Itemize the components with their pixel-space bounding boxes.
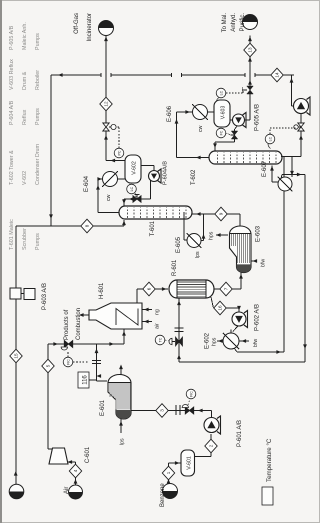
control valve lean solvent <box>298 123 304 131</box>
pump P-605 A/B <box>243 113 247 128</box>
svg-text:Off-Gas: Off-Gas <box>74 13 80 34</box>
svg-text:E-607: E-607 <box>262 160 268 177</box>
wire H-601 outlet to reactor <box>136 289 138 303</box>
wire E-602 salt return down to y=284 <box>235 349 238 353</box>
svg-text:H-601: H-601 <box>99 282 105 299</box>
wire stack to products of combustion <box>80 314 89 316</box>
wire E-603 outlet to T-601 bottom <box>239 214 241 226</box>
wire T-602 bottoms <box>281 156 301 158</box>
wire pump discharge to recycle riser <box>292 105 294 107</box>
svg-text:Maleic Anh.: Maleic Anh. <box>22 22 28 50</box>
svg-text:2: 2 <box>209 444 214 447</box>
svg-text:LC: LC <box>268 136 272 141</box>
wire salt to P-602 <box>238 308 240 312</box>
svg-text:E-605: E-605 <box>176 236 182 253</box>
svg-text:V-601: V-601 <box>187 456 193 470</box>
wire air to burner <box>142 321 152 323</box>
svg-text:E-604: E-604 <box>84 175 90 192</box>
stream connector solvent make-up <box>9 484 24 499</box>
orifice plate on return <box>175 331 184 333</box>
svg-text:Drum &: Drum & <box>22 71 28 90</box>
svg-text:T-602: T-602 <box>191 169 197 185</box>
svg-text:116: 116 <box>83 375 89 385</box>
pump P-603 A/B boxes <box>10 288 21 299</box>
stream connector To Maleic Anhydride Purification <box>243 15 258 30</box>
control valve T-601 reflux <box>133 196 141 202</box>
node stream diamond 5 <box>42 359 54 373</box>
svg-text:15: 15 <box>14 353 19 359</box>
wire bottoms to lean solvent pump <box>300 114 302 157</box>
svg-text:E-602: E-602 <box>205 332 211 349</box>
temperature flag 116 <box>78 372 89 388</box>
svg-text:FC: FC <box>219 130 223 135</box>
vessel E-601 benzene vaporizer <box>108 375 131 420</box>
kettle exchanger E-603 effluent cooler <box>229 226 251 273</box>
svg-text:TC: TC <box>158 337 162 342</box>
node stream diamond 3 <box>156 404 168 418</box>
svg-text:PC: PC <box>117 150 121 155</box>
legend temperature box <box>262 487 273 505</box>
svg-text:7: 7 <box>224 287 229 290</box>
svg-text:Combustion: Combustion <box>76 308 82 340</box>
orifice plate benzene vapor <box>92 363 101 365</box>
instrument FIC air/benzene ratio <box>63 357 73 367</box>
svg-text:V-603: V-603 <box>221 106 227 120</box>
instrument FIC benzene <box>186 389 196 399</box>
pump P-604 A/B <box>158 169 162 183</box>
wire V-602 gas to off-gas line <box>106 160 125 162</box>
wire V-601 bottoms <box>195 456 212 458</box>
node stream diamond 8 <box>81 219 93 233</box>
svg-text:3: 3 <box>160 409 165 412</box>
wire benzene to V-601 <box>168 463 170 484</box>
svg-text:cw: cw <box>106 194 112 201</box>
control valve product <box>247 86 253 94</box>
control valve benzene feed <box>185 407 193 414</box>
instrument LC on V-603 <box>216 88 226 98</box>
node stream diamond 4 <box>69 464 81 478</box>
wire solvent make-up header y=15.5 <box>15 226 17 484</box>
wire solvent into T-601 top <box>123 220 125 226</box>
vessel V-602 condenser drum <box>125 155 141 183</box>
compressor C-601 <box>49 448 68 464</box>
svg-text:C-601: C-601 <box>85 446 91 463</box>
wire off-gas header y=106 <box>105 36 107 161</box>
wire T-601 overhead <box>98 212 119 214</box>
wire bfw to E-602 <box>240 340 250 342</box>
svg-text:V-603 Reflux: V-603 Reflux <box>9 59 15 90</box>
wire P-605 product line y=250 <box>245 119 251 121</box>
instrument LC on T-602 <box>265 134 275 144</box>
wire bfw to E-603 <box>252 260 258 262</box>
wire P-604 reflux to T-601 <box>150 180 152 199</box>
node stream diamond 6 <box>143 282 155 296</box>
vessel V-603 reflux drum <box>214 100 230 127</box>
node stream diamond 14 <box>271 68 283 82</box>
wire E-604 to V-602 <box>118 178 126 180</box>
control valve T-602 reflux <box>231 131 237 139</box>
wire riser x=161 to control valve <box>179 361 305 363</box>
instrument PC off-gas <box>114 148 124 158</box>
svg-text:bfw: bfw <box>253 339 259 347</box>
svg-text:T-601: T-601 <box>150 220 156 236</box>
node stream diamond 15 <box>10 349 22 363</box>
instrument FC reflux <box>216 128 226 138</box>
wire T-601 side draw to E-605 <box>183 212 185 240</box>
svg-text:P-602 A/B: P-602 A/B <box>255 304 261 331</box>
instrument signal LC to product valve <box>226 92 243 94</box>
svg-text:To Mal.: To Mal. <box>222 13 228 33</box>
svg-text:FIC: FIC <box>189 391 193 397</box>
wire air to compressor <box>75 462 77 485</box>
reactor R-601 <box>169 280 214 298</box>
svg-text:Reboiler: Reboiler <box>35 70 41 90</box>
svg-text:P-601 A/B: P-601 A/B <box>237 420 243 447</box>
svg-text:E-601: E-601 <box>100 399 106 416</box>
svg-text:P-604A/B: P-604A/B <box>163 161 169 185</box>
node stream diamond 1 <box>162 466 174 480</box>
wire P-605 reflux to T-602 via valve <box>235 126 238 130</box>
wire E-606 to V-603 <box>208 111 215 113</box>
svg-text:LC: LC <box>219 90 223 95</box>
svg-text:lps: lps <box>120 438 126 445</box>
wire mixed feed into H-601 <box>109 342 114 346</box>
svg-text:Products of: Products of <box>64 309 70 340</box>
node stream diamond 9 <box>215 207 227 221</box>
svg-text:Reflux: Reflux <box>22 109 28 125</box>
instrument TC on return <box>155 335 165 345</box>
svg-text:lps: lps <box>195 251 201 258</box>
svg-text:P-605 A/B: P-605 A/B <box>255 104 261 131</box>
svg-text:E-603: E-603 <box>256 225 262 242</box>
svg-text:16: 16 <box>218 305 223 311</box>
stream connector Air <box>69 485 83 499</box>
svg-text:Scrubber: Scrubber <box>22 228 28 250</box>
wire tee to E-607 <box>291 157 293 178</box>
node stream diamond 13 <box>244 43 256 57</box>
wire ng fuel <box>142 309 152 311</box>
svg-text:V-602: V-602 <box>22 171 28 185</box>
wire effluent to E-603 <box>233 288 241 290</box>
svg-text:Temperature °C: Temperature °C <box>266 438 273 482</box>
instrument LC on V-602 <box>127 184 137 194</box>
wire hps from E-602 <box>217 340 223 342</box>
instrument signal LC to valve <box>269 128 271 134</box>
wire V-602 liquid to P-604 <box>141 165 154 167</box>
stream connector Benzene <box>163 484 178 499</box>
svg-text:Benzene: Benzene <box>160 483 166 507</box>
orifice plate benzene liquid <box>175 405 177 415</box>
svg-text:4: 4 <box>73 469 78 472</box>
svg-text:hps: hps <box>209 231 215 240</box>
svg-text:Purific.: Purific. <box>240 13 246 32</box>
control valve on salt/solvent return <box>176 337 183 345</box>
svg-text:cw: cw <box>198 125 204 132</box>
wire hps from E-603 <box>216 234 228 236</box>
svg-text:P-604 A/B: P-604 A/B <box>9 100 15 125</box>
svg-text:14: 14 <box>275 72 280 78</box>
wire air down-leg x=179 <box>48 343 124 345</box>
svg-text:E-606: E-606 <box>167 105 173 122</box>
wire molten salt out of R-601 <box>211 297 213 308</box>
heat exchanger E-606 condenser <box>193 105 208 120</box>
svg-text:9: 9 <box>219 212 224 215</box>
stream connector Off-Gas to incinerator <box>99 21 114 36</box>
column T-601 <box>119 206 192 219</box>
wire E-601 condensate arrow <box>120 366 122 375</box>
svg-text:V-602: V-602 <box>132 161 138 175</box>
node stream diamond 16 <box>214 301 226 315</box>
svg-text:Condenser Drum: Condenser Drum <box>35 143 41 185</box>
svg-text:1: 1 <box>166 471 171 474</box>
svg-text:Incinerator: Incinerator <box>87 13 93 41</box>
vessel V-601 benzene feed drum <box>181 450 195 476</box>
heat exchanger E-607 reboiler <box>278 177 292 191</box>
pump P-601 A/B <box>217 416 221 434</box>
pump P-602 A/B molten salt <box>244 311 248 328</box>
svg-text:hps: hps <box>212 337 218 346</box>
control valve on air line <box>64 341 72 348</box>
wire lps into E-601 <box>120 419 122 434</box>
wire benzene vapor line y=96.5 <box>97 380 108 382</box>
svg-text:Anhyd.: Anhyd. <box>231 13 237 32</box>
wire T-602 vapor overhead <box>177 157 210 159</box>
svg-text:bfw: bfw <box>261 259 267 267</box>
heat exchanger E-604 overhead cooler <box>103 172 118 187</box>
wire P-602 to E-602 <box>233 326 238 332</box>
wire E-605 return to effluent line <box>201 240 204 242</box>
svg-text:P-603 A/B: P-603 A/B <box>42 283 48 310</box>
node stream diamond 12 <box>100 97 112 111</box>
svg-text:T-601 Maleic: T-601 Maleic <box>9 219 15 250</box>
wire E-607 to long solvent line <box>281 175 282 179</box>
wire compressed air header y=48 <box>48 448 52 450</box>
svg-text:Pumps: Pumps <box>35 108 41 125</box>
wire into R-601 shell side <box>177 301 181 306</box>
svg-text:ng: ng <box>155 309 161 315</box>
svg-text:6: 6 <box>147 287 152 290</box>
svg-text:8: 8 <box>85 224 90 227</box>
svg-text:Air: Air <box>64 487 70 494</box>
wire E-607 lean solvent long line y=305 <box>282 174 305 176</box>
svg-text:12: 12 <box>104 101 109 107</box>
svg-text:air: air <box>155 323 161 329</box>
svg-text:FIC: FIC <box>66 359 70 365</box>
svg-text:T-602 Tower &: T-602 Tower & <box>9 150 15 185</box>
wire E-607 return to column <box>272 181 279 183</box>
svg-text:P-605 A/B: P-605 A/B <box>9 25 15 50</box>
control valve off-gas <box>103 123 109 131</box>
svg-text:Pumps: Pumps <box>35 33 41 50</box>
svg-text:LC: LC <box>130 186 134 191</box>
svg-text:Pumps: Pumps <box>35 233 41 250</box>
pump lean solvent recycle <box>307 97 311 115</box>
column T-602 <box>209 151 282 164</box>
node stream diamond 7 <box>220 282 232 296</box>
fired heater H-601 <box>89 303 142 329</box>
wire R-601 effluent to diamond 7 <box>214 288 233 290</box>
wire P-601 discharge up x=112.5 <box>211 411 213 418</box>
wire recycle riser x=448 with crossing breaks <box>51 74 101 76</box>
heat exchanger E-602 salt cooler / steam generator <box>223 333 239 349</box>
svg-text:5: 5 <box>46 364 51 367</box>
wire solvent down-leg x=297 <box>16 225 124 227</box>
node stream diamond 2 <box>205 439 217 453</box>
wire V-603 to P-605 <box>230 119 233 121</box>
heat exchanger E-605 <box>187 234 201 248</box>
svg-text:13: 13 <box>248 47 253 53</box>
wire long line y=284 to T-602 bottom <box>283 157 285 352</box>
svg-text:R-601: R-601 <box>172 259 178 276</box>
wire recycle header y=51 <box>50 75 52 226</box>
